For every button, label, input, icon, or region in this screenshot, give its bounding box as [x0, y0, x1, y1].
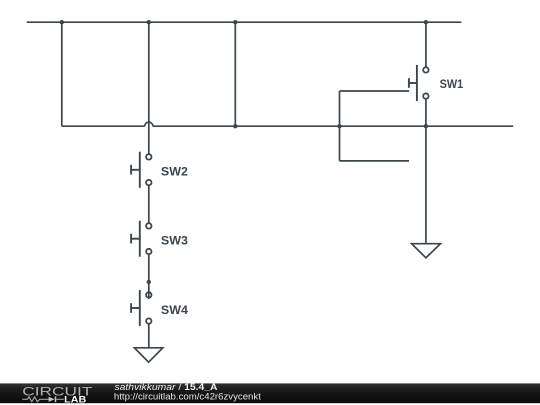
wire SW4 to ground	[148, 325, 150, 348]
switch SW4	[131, 282, 151, 326]
wire SW3 to node	[148, 255, 150, 282]
svg-text:SW3: SW3	[161, 233, 188, 247]
svg-text:SW4: SW4	[161, 303, 188, 317]
wire vertical mid drop	[234, 22, 236, 126]
ground under SW4	[134, 348, 162, 362]
svg-text:http://circuitlab.com/c42r6zvy: http://circuitlab.com/c42r6zvycenkt	[114, 392, 262, 402]
svg-text:sathvikkumar / 15.4_A: sathvikkumar / 15.4_A	[115, 382, 219, 392]
svg-text:LAB: LAB	[64, 394, 87, 404]
switch SW1	[409, 65, 429, 101]
wire through SW4 top terminal	[148, 282, 150, 299]
footer bar	[0, 383, 540, 403]
svg-text:SW1: SW1	[440, 77, 464, 91]
wire SW1 drain drop	[425, 22, 427, 67]
node dot top SW1	[424, 20, 428, 24]
node dot above SW4	[147, 280, 151, 284]
node dot second rail mid	[233, 124, 237, 128]
svg-text:SW2: SW2	[161, 164, 188, 178]
wire bracket top arm	[340, 90, 410, 92]
node dot bracket	[337, 124, 341, 128]
wire bracket vertical	[339, 91, 341, 161]
wire second rail left segment	[62, 125, 145, 127]
node dot top-left	[60, 20, 64, 24]
wire SW2 to SW3	[148, 186, 150, 223]
node dot top mid	[233, 20, 237, 24]
wire top rail	[27, 21, 462, 23]
node dot top SW2 feed	[147, 20, 151, 24]
wire hop over vertical	[145, 122, 153, 126]
logo resistor-diode glyph	[22, 397, 64, 402]
switch SW2	[131, 152, 151, 188]
switch SW3	[131, 221, 151, 257]
wire bracket bottom arm	[340, 160, 410, 162]
node dot SW1 source	[424, 124, 428, 128]
wire vertical left drop	[61, 22, 63, 126]
ground under SW1	[412, 244, 441, 258]
wire second rail right segment	[153, 125, 513, 127]
wire SW1 source to ground	[425, 99, 427, 244]
wire SW2 feed	[148, 22, 150, 154]
